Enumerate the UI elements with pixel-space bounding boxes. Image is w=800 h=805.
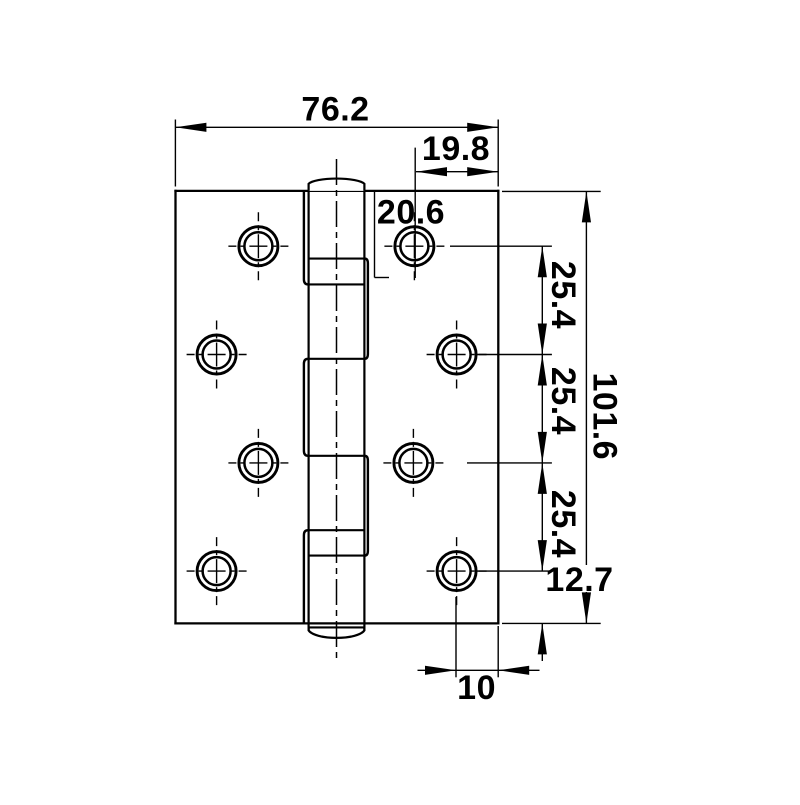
dimension 10 arrow left bbox=[425, 666, 456, 675]
knuckle joint line 4 bbox=[309, 455, 365, 457]
svg-text:10: 10 bbox=[457, 669, 496, 707]
dimension 19.8 arrow right bbox=[467, 167, 498, 176]
hole H8 right row4 bbox=[427, 537, 487, 605]
dimension 10 extension right bbox=[497, 626, 499, 677]
svg-text:25.4: 25.4 bbox=[544, 367, 582, 435]
knuckle outer left bulge 3 bbox=[304, 530, 309, 623]
dimension 10 arrow right bbox=[498, 666, 529, 675]
dimension 76.2 extension left bbox=[174, 120, 176, 187]
svg-text:19.8: 19.8 bbox=[422, 130, 490, 168]
dimension 20.6 tick bbox=[375, 277, 390, 279]
pin top cap bbox=[309, 179, 365, 191]
dimension 101.6 arrow bottom bbox=[582, 592, 591, 623]
knuckle joint line 5 bbox=[309, 529, 365, 531]
knuckle outer left bulge 2 bbox=[304, 359, 309, 456]
knuckle outer left bulge 1 bbox=[304, 191, 309, 285]
row4 extension line bbox=[477, 570, 552, 572]
pin bottom cap line bbox=[309, 626, 365, 628]
knuckle joint line 1 bbox=[309, 258, 365, 260]
top edge extension right bbox=[502, 190, 601, 192]
svg-text:76.2: 76.2 bbox=[301, 90, 369, 128]
knuckle inner left vertical bbox=[308, 191, 310, 631]
hole H7 right row3 bbox=[383, 429, 443, 497]
hole H4 left row4 bbox=[187, 537, 247, 605]
arrow up at row3 bbox=[538, 463, 547, 494]
arrow up at row2 bbox=[538, 355, 547, 386]
pin centerline bbox=[336, 159, 338, 658]
row2 extension line bbox=[477, 354, 552, 356]
dimension 76.2 line bbox=[175, 126, 498, 128]
dimension 101.6 line upper bbox=[585, 191, 587, 565]
leaf left edge bbox=[174, 190, 176, 625]
knuckle joint line 2 bbox=[309, 283, 365, 285]
knuckle joint line 6 bbox=[309, 555, 365, 557]
hole H3 left row3 bbox=[228, 429, 288, 497]
row1 extension line bbox=[450, 245, 552, 247]
dimension 20.6 knuckle line bbox=[374, 192, 376, 278]
arrow down at row4 bbox=[538, 540, 547, 571]
hole H5 right row1 bbox=[384, 212, 444, 280]
svg-text:101.6: 101.6 bbox=[586, 373, 624, 461]
dimension 101.6 arrow top bbox=[582, 191, 591, 222]
arrow down at row2 bbox=[538, 324, 547, 355]
pin bottom cap dome bbox=[309, 627, 365, 637]
knuckle joint line 3 bbox=[309, 358, 365, 360]
row3 extension line bbox=[467, 462, 552, 464]
knuckle column white underlay bbox=[301, 189, 370, 641]
arrow down at row3 bbox=[538, 432, 547, 463]
leaf top edge bbox=[174, 190, 499, 192]
dimension 101.6 line lower bbox=[585, 592, 587, 623]
arrow up at row1 bbox=[538, 246, 547, 277]
knuckle outer right bulge 1 bbox=[364, 259, 368, 359]
dimension 19.8 arrow left bbox=[416, 167, 447, 176]
dimension 76.2 extension right bbox=[497, 120, 499, 187]
hole H1 left row1 bbox=[228, 212, 288, 280]
arrow up at bottom edge (12.7 outside) bbox=[538, 623, 547, 654]
svg-text:12.7: 12.7 bbox=[545, 561, 613, 599]
knuckle inner right vertical bbox=[363, 191, 365, 631]
svg-text:25.4: 25.4 bbox=[544, 490, 582, 558]
hole H2 left row2 bbox=[187, 321, 247, 389]
leaf right edge bbox=[497, 190, 499, 625]
hinge leaf plate outline bbox=[176, 191, 499, 624]
dimension 76.2 arrow right bbox=[467, 123, 498, 132]
dimension 20.6 extension line bbox=[414, 148, 416, 278]
svg-text:25.4: 25.4 bbox=[544, 261, 582, 329]
dimension 10 extension left bbox=[455, 597, 457, 677]
svg-text:20.6: 20.6 bbox=[377, 193, 445, 231]
dimension 12.7 lower stub bbox=[541, 623, 543, 661]
dimension 19.8 line bbox=[416, 171, 498, 173]
knuckle outer right bulge 2 bbox=[364, 456, 368, 556]
hole H6 right row2 bbox=[427, 321, 487, 389]
bottom edge extension right bbox=[502, 622, 601, 624]
leaf bottom edge bbox=[174, 622, 499, 624]
dimension 10 line bbox=[418, 669, 540, 671]
dimension chain 25.4 line bbox=[541, 246, 543, 571]
dimension 76.2 arrow left bbox=[175, 123, 206, 132]
